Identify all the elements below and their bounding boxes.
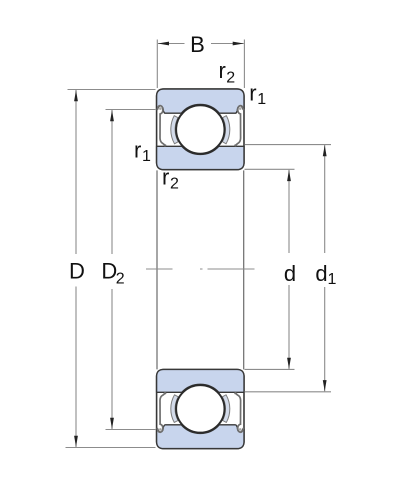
shield anchor curl fill left (bottom) — [159, 428, 162, 431]
d1 arrow top — [323, 145, 327, 156]
d1 arrow bottom — [323, 380, 327, 391]
D2 extension line top — [106, 109, 156, 111]
cage left (bottom) — [171, 395, 178, 423]
shield anchor curl fill right (bottom) — [239, 428, 242, 431]
d arrow top — [287, 170, 291, 181]
shield right lip tip (bottom) — [234, 392, 236, 394]
svg-text:r: r — [162, 165, 169, 190]
B arrow left — [158, 42, 169, 46]
cage left (top) — [171, 116, 178, 144]
bottom section envelope — [157, 369, 244, 448]
centre line (dash-dot) — [146, 268, 255, 270]
svg-text:r: r — [249, 81, 256, 106]
inner ring cross-section (top) — [157, 146, 244, 169]
svg-text:2: 2 — [116, 271, 125, 288]
shield anchor curl fill left (top) — [159, 107, 162, 110]
shield left (bottom) — [157, 393, 165, 432]
bottom bearing section (mirror of top) — [157, 369, 244, 448]
svg-text:B: B — [190, 32, 205, 57]
shield right lip tip (top) — [234, 144, 236, 146]
d1 extension line top — [245, 144, 332, 146]
svg-text:d: d — [284, 261, 296, 286]
shield right (bottom) — [236, 393, 244, 432]
svg-text:r: r — [219, 58, 226, 83]
svg-text:1: 1 — [328, 271, 337, 288]
outer ring cross-section (bottom) — [157, 425, 244, 449]
D2 extension line bottom — [106, 429, 156, 431]
ball (top) — [176, 105, 224, 153]
svg-text:2: 2 — [226, 70, 235, 87]
D arrow bottom — [74, 436, 78, 447]
d1 extension line bottom — [245, 391, 332, 393]
D2 arrow top — [110, 110, 114, 121]
D extension line top — [68, 89, 156, 91]
B arrow right — [233, 42, 244, 46]
svg-text:d: d — [315, 261, 327, 286]
inner ring cross-section (bottom) — [157, 369, 244, 392]
shield left lip tip (bottom) — [164, 392, 166, 394]
shield right (top) — [236, 106, 244, 146]
cage right (bottom) — [222, 395, 229, 423]
shield anchor curl fill right (top) — [239, 107, 242, 110]
d extension line bottom — [245, 368, 295, 370]
svg-text:2: 2 — [170, 176, 179, 193]
shield left (top) — [157, 106, 165, 146]
D arrow top — [74, 90, 78, 101]
d dimension line — [288, 170, 290, 369]
svg-text:D: D — [69, 259, 85, 284]
B extension line left — [156, 40, 158, 89]
outer ring cross-section (top) — [157, 89, 244, 113]
D2 arrow bottom — [110, 418, 114, 429]
d1 dimension line — [324, 145, 326, 391]
D dimension line — [75, 90, 77, 447]
side face projection line right — [243, 170, 245, 369]
cage right (top) — [222, 116, 229, 144]
top bearing section envelope — [157, 89, 244, 170]
D extension line bottom — [66, 447, 156, 449]
D2 dimension line — [111, 110, 113, 429]
B dimension line — [158, 43, 244, 45]
ball (bottom) — [176, 385, 224, 432]
side face projection line left — [156, 170, 158, 369]
svg-text:r: r — [134, 138, 141, 163]
svg-text:1: 1 — [142, 148, 151, 165]
B extension line right — [243, 40, 245, 89]
d arrow bottom — [287, 358, 291, 369]
d extension line top — [245, 168, 295, 170]
shield left lip tip (top) — [164, 144, 166, 146]
svg-text:1: 1 — [257, 91, 266, 108]
